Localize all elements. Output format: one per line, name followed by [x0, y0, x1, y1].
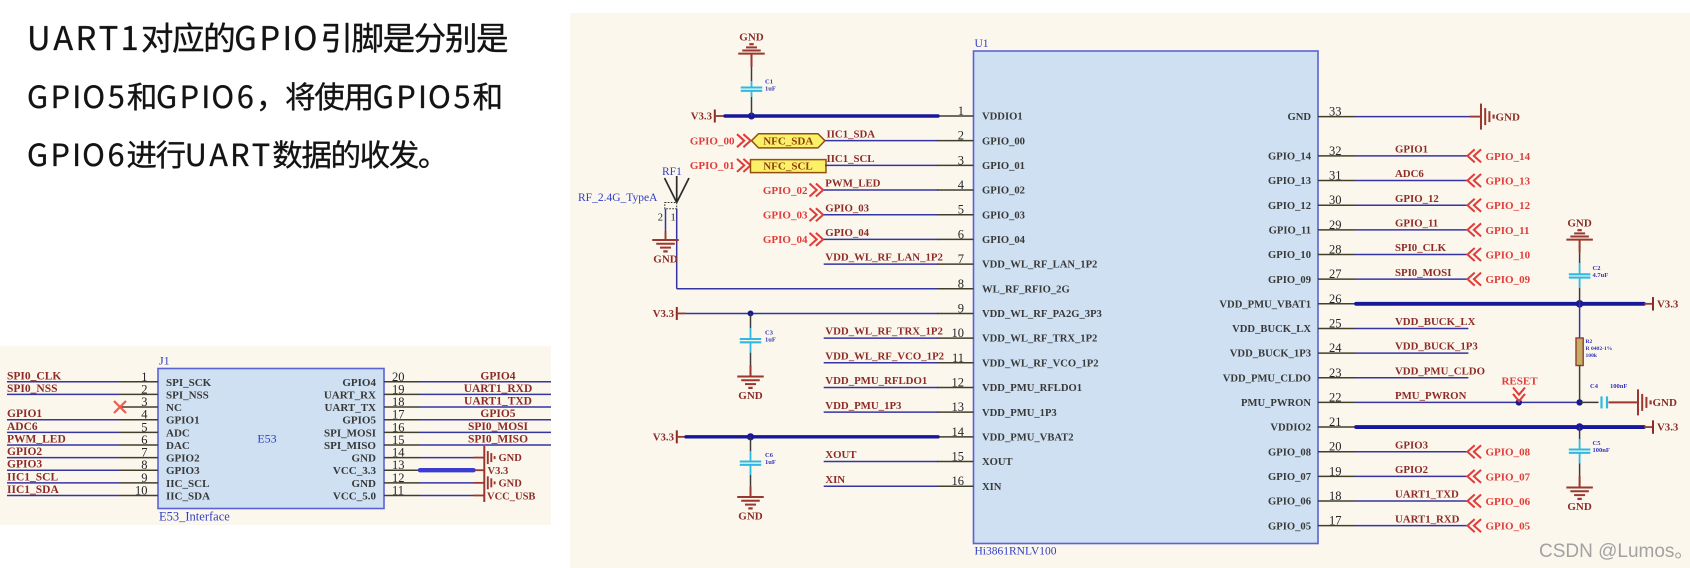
svg-text:GPIO5: GPIO5: [342, 415, 376, 427]
svg-text:25: 25: [1329, 316, 1342, 330]
svg-text:16: 16: [952, 474, 965, 488]
svg-text:GPIO_11: GPIO_11: [1486, 225, 1530, 237]
svg-text:GPIO_06: GPIO_06: [1486, 496, 1531, 508]
svg-text:VDD_PMU_RFLDO1: VDD_PMU_RFLDO1: [825, 375, 927, 387]
svg-text:GND: GND: [1496, 111, 1521, 123]
svg-text:GND: GND: [738, 511, 763, 523]
svg-text:XOUT: XOUT: [825, 449, 857, 461]
svg-text:VDD_PMU_RFLDO1: VDD_PMU_RFLDO1: [982, 383, 1082, 394]
svg-text:GPIO_05: GPIO_05: [1486, 521, 1531, 533]
svg-text:24: 24: [1329, 341, 1342, 355]
svg-text:GPIO_12: GPIO_12: [1486, 200, 1531, 212]
svg-text:C6: C6: [765, 452, 774, 459]
svg-text:GPIO1: GPIO1: [1395, 144, 1428, 156]
svg-text:7: 7: [958, 252, 964, 266]
svg-text:17: 17: [1329, 514, 1342, 528]
svg-text:100nF: 100nF: [1610, 383, 1627, 390]
svg-text:PWM_LED: PWM_LED: [825, 178, 880, 190]
svg-text:VDD_PMU_1P3: VDD_PMU_1P3: [982, 408, 1057, 419]
svg-text:IIC1_SDA: IIC1_SDA: [827, 128, 876, 140]
svg-text:VDDIO1: VDDIO1: [982, 112, 1023, 123]
svg-text:SPI_SCK: SPI_SCK: [166, 377, 212, 389]
svg-text:6: 6: [958, 227, 964, 241]
svg-text:VDD_PMU_VBAT1: VDD_PMU_VBAT1: [1219, 299, 1311, 310]
svg-text:IIC_SCL: IIC_SCL: [166, 478, 209, 490]
svg-text:GPIO_04: GPIO_04: [763, 234, 808, 246]
svg-text:GND: GND: [499, 478, 523, 489]
svg-text:GPIO_07: GPIO_07: [1268, 472, 1312, 483]
svg-text:13: 13: [952, 400, 965, 414]
svg-text:UART1_TXD: UART1_TXD: [1395, 489, 1459, 501]
svg-text:GPIO3: GPIO3: [1395, 439, 1429, 451]
svg-text:GND: GND: [1287, 112, 1311, 123]
svg-text:VDD_WL_RF_VCO_1P2: VDD_WL_RF_VCO_1P2: [982, 358, 1099, 369]
svg-text:DAC: DAC: [166, 440, 190, 452]
svg-text:GND: GND: [739, 32, 764, 44]
svg-text:R 0402-1%: R 0402-1%: [1586, 346, 1613, 352]
svg-text:GPIO_10: GPIO_10: [1268, 250, 1311, 261]
svg-text:GPIO2: GPIO2: [166, 453, 200, 465]
svg-text:GPIO4: GPIO4: [342, 377, 376, 389]
svg-text:RESET: RESET: [1501, 376, 1538, 388]
svg-text:3: 3: [958, 153, 964, 167]
svg-text:GPIO_12: GPIO_12: [1268, 201, 1311, 212]
svg-text:V3.3: V3.3: [488, 466, 509, 477]
svg-text:XOUT: XOUT: [982, 457, 1013, 468]
svg-text:SPI_MISO: SPI_MISO: [324, 440, 376, 452]
svg-text:18: 18: [1329, 489, 1342, 503]
svg-text:GPIO_00: GPIO_00: [690, 135, 735, 147]
svg-text:RF1: RF1: [662, 166, 682, 178]
svg-text:VDD_PMU_CLDO: VDD_PMU_CLDO: [1223, 373, 1311, 384]
svg-text:VDD_WL_RF_LAN_1P2: VDD_WL_RF_LAN_1P2: [825, 252, 943, 264]
svg-text:9: 9: [958, 301, 964, 315]
svg-text:11: 11: [952, 351, 964, 365]
svg-text:V3.3: V3.3: [1657, 422, 1679, 434]
svg-text:GPIO_06: GPIO_06: [1268, 497, 1311, 508]
svg-text:IIC_SDA: IIC_SDA: [166, 490, 210, 502]
svg-text:VDD_PMU_1P3: VDD_PMU_1P3: [825, 400, 902, 412]
svg-text:10: 10: [952, 326, 965, 340]
svg-text:GPIO2: GPIO2: [7, 446, 42, 458]
svg-text:GPIO_11: GPIO_11: [1395, 217, 1438, 229]
svg-text:21: 21: [1329, 415, 1342, 429]
svg-text:E53_Interface: E53_Interface: [159, 510, 230, 524]
svg-text:GPIO_10: GPIO_10: [1486, 250, 1531, 262]
svg-text:U1: U1: [975, 38, 989, 50]
svg-text:GND: GND: [1653, 397, 1678, 409]
svg-text:23: 23: [1329, 366, 1342, 380]
svg-text:V3.3: V3.3: [653, 308, 675, 320]
svg-text:GPIO_13: GPIO_13: [1486, 176, 1531, 188]
svg-text:GPIO_14: GPIO_14: [1268, 152, 1312, 163]
svg-text:SPI0_MOSI: SPI0_MOSI: [468, 421, 529, 433]
svg-text:1: 1: [671, 213, 676, 224]
svg-text:14: 14: [952, 425, 965, 439]
svg-text:SPI0_NSS: SPI0_NSS: [7, 383, 58, 395]
svg-text:VDD_WL_RF_LAN_1P2: VDD_WL_RF_LAN_1P2: [982, 260, 1097, 271]
svg-text:PMU_PWRON: PMU_PWRON: [1395, 390, 1467, 402]
svg-text:100nF: 100nF: [1593, 447, 1610, 454]
svg-text:20: 20: [1329, 440, 1342, 454]
svg-text:SPI0_MOSI: SPI0_MOSI: [1395, 267, 1451, 279]
svg-text:4.7uF: 4.7uF: [1593, 272, 1609, 279]
svg-text:ADC6: ADC6: [1395, 168, 1424, 180]
svg-text:GPIO_11: GPIO_11: [1269, 225, 1311, 236]
svg-text:5: 5: [958, 203, 964, 217]
svg-text:C4: C4: [1590, 383, 1599, 390]
svg-text:GPIO3: GPIO3: [7, 459, 42, 471]
svg-text:12: 12: [952, 375, 965, 389]
svg-text:GPIO3: GPIO3: [166, 465, 200, 477]
svg-text:GPIO_01: GPIO_01: [690, 160, 735, 172]
svg-text:GPIO_08: GPIO_08: [1268, 447, 1311, 458]
svg-text:GND: GND: [499, 453, 523, 464]
svg-text:GPIO_07: GPIO_07: [1486, 471, 1531, 483]
svg-text:GPIO_03: GPIO_03: [763, 210, 808, 222]
svg-text:10: 10: [135, 483, 148, 497]
svg-text:19: 19: [1329, 464, 1342, 478]
svg-text:15: 15: [952, 450, 965, 464]
svg-text:SPI0_CLK: SPI0_CLK: [1395, 242, 1447, 254]
svg-text:VDD_PMU_CLDO: VDD_PMU_CLDO: [1395, 365, 1485, 377]
svg-text:22: 22: [1329, 390, 1342, 404]
svg-text:V3.3: V3.3: [1657, 298, 1679, 310]
svg-text:J1: J1: [159, 354, 170, 368]
svg-text:2: 2: [658, 213, 663, 224]
svg-text:VDD_BUCK_LX: VDD_BUCK_LX: [1232, 324, 1311, 335]
svg-text:GPIO2: GPIO2: [1395, 464, 1428, 476]
svg-text:VCC_5.0: VCC_5.0: [333, 490, 377, 502]
svg-text:GPIO_03: GPIO_03: [982, 210, 1025, 221]
svg-text:VDD_WL_RF_PA2G_3P3: VDD_WL_RF_PA2G_3P3: [982, 309, 1102, 320]
svg-text:GPIO1: GPIO1: [166, 415, 200, 427]
svg-text:GND: GND: [653, 254, 678, 266]
svg-text:Hi3861RNLV100: Hi3861RNLV100: [975, 546, 1057, 558]
svg-text:GPIO_09: GPIO_09: [1486, 274, 1531, 286]
svg-text:28: 28: [1329, 243, 1342, 257]
svg-text:V3.3: V3.3: [653, 431, 675, 443]
svg-text:1uF: 1uF: [765, 86, 776, 93]
svg-text:GPIO_09: GPIO_09: [1268, 275, 1311, 286]
svg-text:GPIO_13: GPIO_13: [1268, 176, 1311, 187]
svg-text:VCC_3.3: VCC_3.3: [333, 465, 377, 477]
svg-text:VDD_WL_RF_TRX_1P2: VDD_WL_RF_TRX_1P2: [825, 326, 943, 338]
svg-text:GPIO_00: GPIO_00: [982, 136, 1025, 147]
svg-text:GPIO_04: GPIO_04: [825, 227, 869, 239]
svg-text:VDD_BUCK_LX: VDD_BUCK_LX: [1395, 316, 1476, 328]
svg-text:32: 32: [1329, 144, 1342, 158]
svg-text:GND: GND: [1567, 218, 1592, 230]
svg-text:C5: C5: [1593, 440, 1602, 447]
svg-text:GND: GND: [1567, 501, 1592, 513]
svg-text:GPIO4: GPIO4: [480, 370, 515, 382]
svg-text:ADC6: ADC6: [7, 421, 38, 433]
svg-text:XIN: XIN: [825, 474, 845, 486]
svg-text:SPI0_CLK: SPI0_CLK: [7, 370, 61, 382]
svg-text:VDD_BUCK_1P3: VDD_BUCK_1P3: [1395, 341, 1478, 353]
svg-text:R2: R2: [1586, 339, 1593, 345]
svg-text:VCC_USB: VCC_USB: [487, 491, 535, 502]
svg-text:VDD_PMU_VBAT2: VDD_PMU_VBAT2: [982, 432, 1074, 443]
svg-text:XIN: XIN: [982, 482, 1002, 493]
svg-text:V3.3: V3.3: [691, 111, 713, 123]
svg-text:UART1_RXD: UART1_RXD: [464, 383, 533, 395]
svg-text:SPI0_MISO: SPI0_MISO: [468, 433, 528, 445]
svg-text:IIC1_SCL: IIC1_SCL: [7, 471, 58, 483]
svg-text:8: 8: [958, 277, 964, 291]
svg-text:NC: NC: [166, 402, 182, 414]
svg-text:VDD_WL_RF_VCO_1P2: VDD_WL_RF_VCO_1P2: [825, 350, 944, 362]
svg-text:VDD_WL_RF_TRX_1P2: VDD_WL_RF_TRX_1P2: [982, 334, 1097, 345]
svg-text:2: 2: [958, 129, 964, 143]
svg-text:GPIO_14: GPIO_14: [1486, 151, 1531, 163]
svg-text:C2: C2: [1593, 265, 1601, 272]
svg-text:GND: GND: [738, 390, 763, 402]
svg-text:PWM_LED: PWM_LED: [7, 433, 66, 445]
svg-text:C3: C3: [765, 330, 774, 337]
svg-text:GPIO_05: GPIO_05: [1268, 521, 1311, 532]
svg-text:C1: C1: [765, 79, 773, 86]
svg-text:GPIO1: GPIO1: [7, 408, 42, 420]
svg-text:SPI_NSS: SPI_NSS: [166, 389, 209, 401]
svg-text:GPIO5: GPIO5: [480, 408, 515, 420]
svg-text:NFC_SDA: NFC_SDA: [763, 136, 813, 148]
svg-text:E53: E53: [257, 432, 276, 446]
svg-text:CSDN @Lumos。: CSDN @Lumos。: [1539, 541, 1690, 562]
svg-text:1: 1: [958, 104, 964, 118]
svg-text:GPIO_02: GPIO_02: [982, 186, 1025, 197]
svg-text:NFC_SCL: NFC_SCL: [763, 160, 813, 172]
svg-text:29: 29: [1329, 218, 1342, 232]
svg-text:UART_RX: UART_RX: [324, 389, 376, 401]
svg-text:100k: 100k: [1586, 353, 1598, 359]
svg-text:GND: GND: [352, 453, 377, 465]
svg-text:RF_2.4G_TypeA: RF_2.4G_TypeA: [578, 192, 658, 204]
svg-text:31: 31: [1329, 169, 1342, 183]
svg-text:30: 30: [1329, 193, 1342, 207]
svg-text:SPI_MOSI: SPI_MOSI: [324, 427, 376, 439]
svg-text:33: 33: [1329, 105, 1342, 119]
svg-text:ADC: ADC: [166, 427, 190, 439]
svg-text:WL_RF_RFIO_2G: WL_RF_RFIO_2G: [982, 284, 1070, 295]
svg-text:IIC1_SDA: IIC1_SDA: [7, 484, 59, 496]
svg-text:GPIO_12: GPIO_12: [1395, 193, 1439, 205]
svg-text:11: 11: [392, 483, 404, 497]
svg-text:1uF: 1uF: [765, 337, 776, 344]
svg-text:27: 27: [1329, 267, 1342, 281]
svg-text:UART_TX: UART_TX: [324, 402, 376, 414]
svg-text:GPIO_08: GPIO_08: [1486, 447, 1531, 459]
svg-text:GPIO_02: GPIO_02: [763, 185, 808, 197]
svg-text:UART1_TXD: UART1_TXD: [464, 396, 532, 408]
svg-text:GPIO_03: GPIO_03: [825, 202, 869, 214]
svg-text:GPIO_04: GPIO_04: [982, 235, 1026, 246]
svg-text:PMU_PWRON: PMU_PWRON: [1241, 398, 1311, 409]
svg-text:GND: GND: [352, 478, 377, 490]
svg-text:VDD_BUCK_1P3: VDD_BUCK_1P3: [1230, 349, 1311, 360]
svg-text:VDDIO2: VDDIO2: [1270, 423, 1311, 434]
svg-text:26: 26: [1329, 292, 1342, 306]
svg-text:1uF: 1uF: [765, 459, 776, 466]
svg-text:4: 4: [958, 178, 965, 192]
svg-text:UART1_RXD: UART1_RXD: [1395, 513, 1460, 525]
svg-text:IIC1_SCL: IIC1_SCL: [827, 153, 875, 165]
svg-text:GPIO_01: GPIO_01: [982, 161, 1025, 172]
